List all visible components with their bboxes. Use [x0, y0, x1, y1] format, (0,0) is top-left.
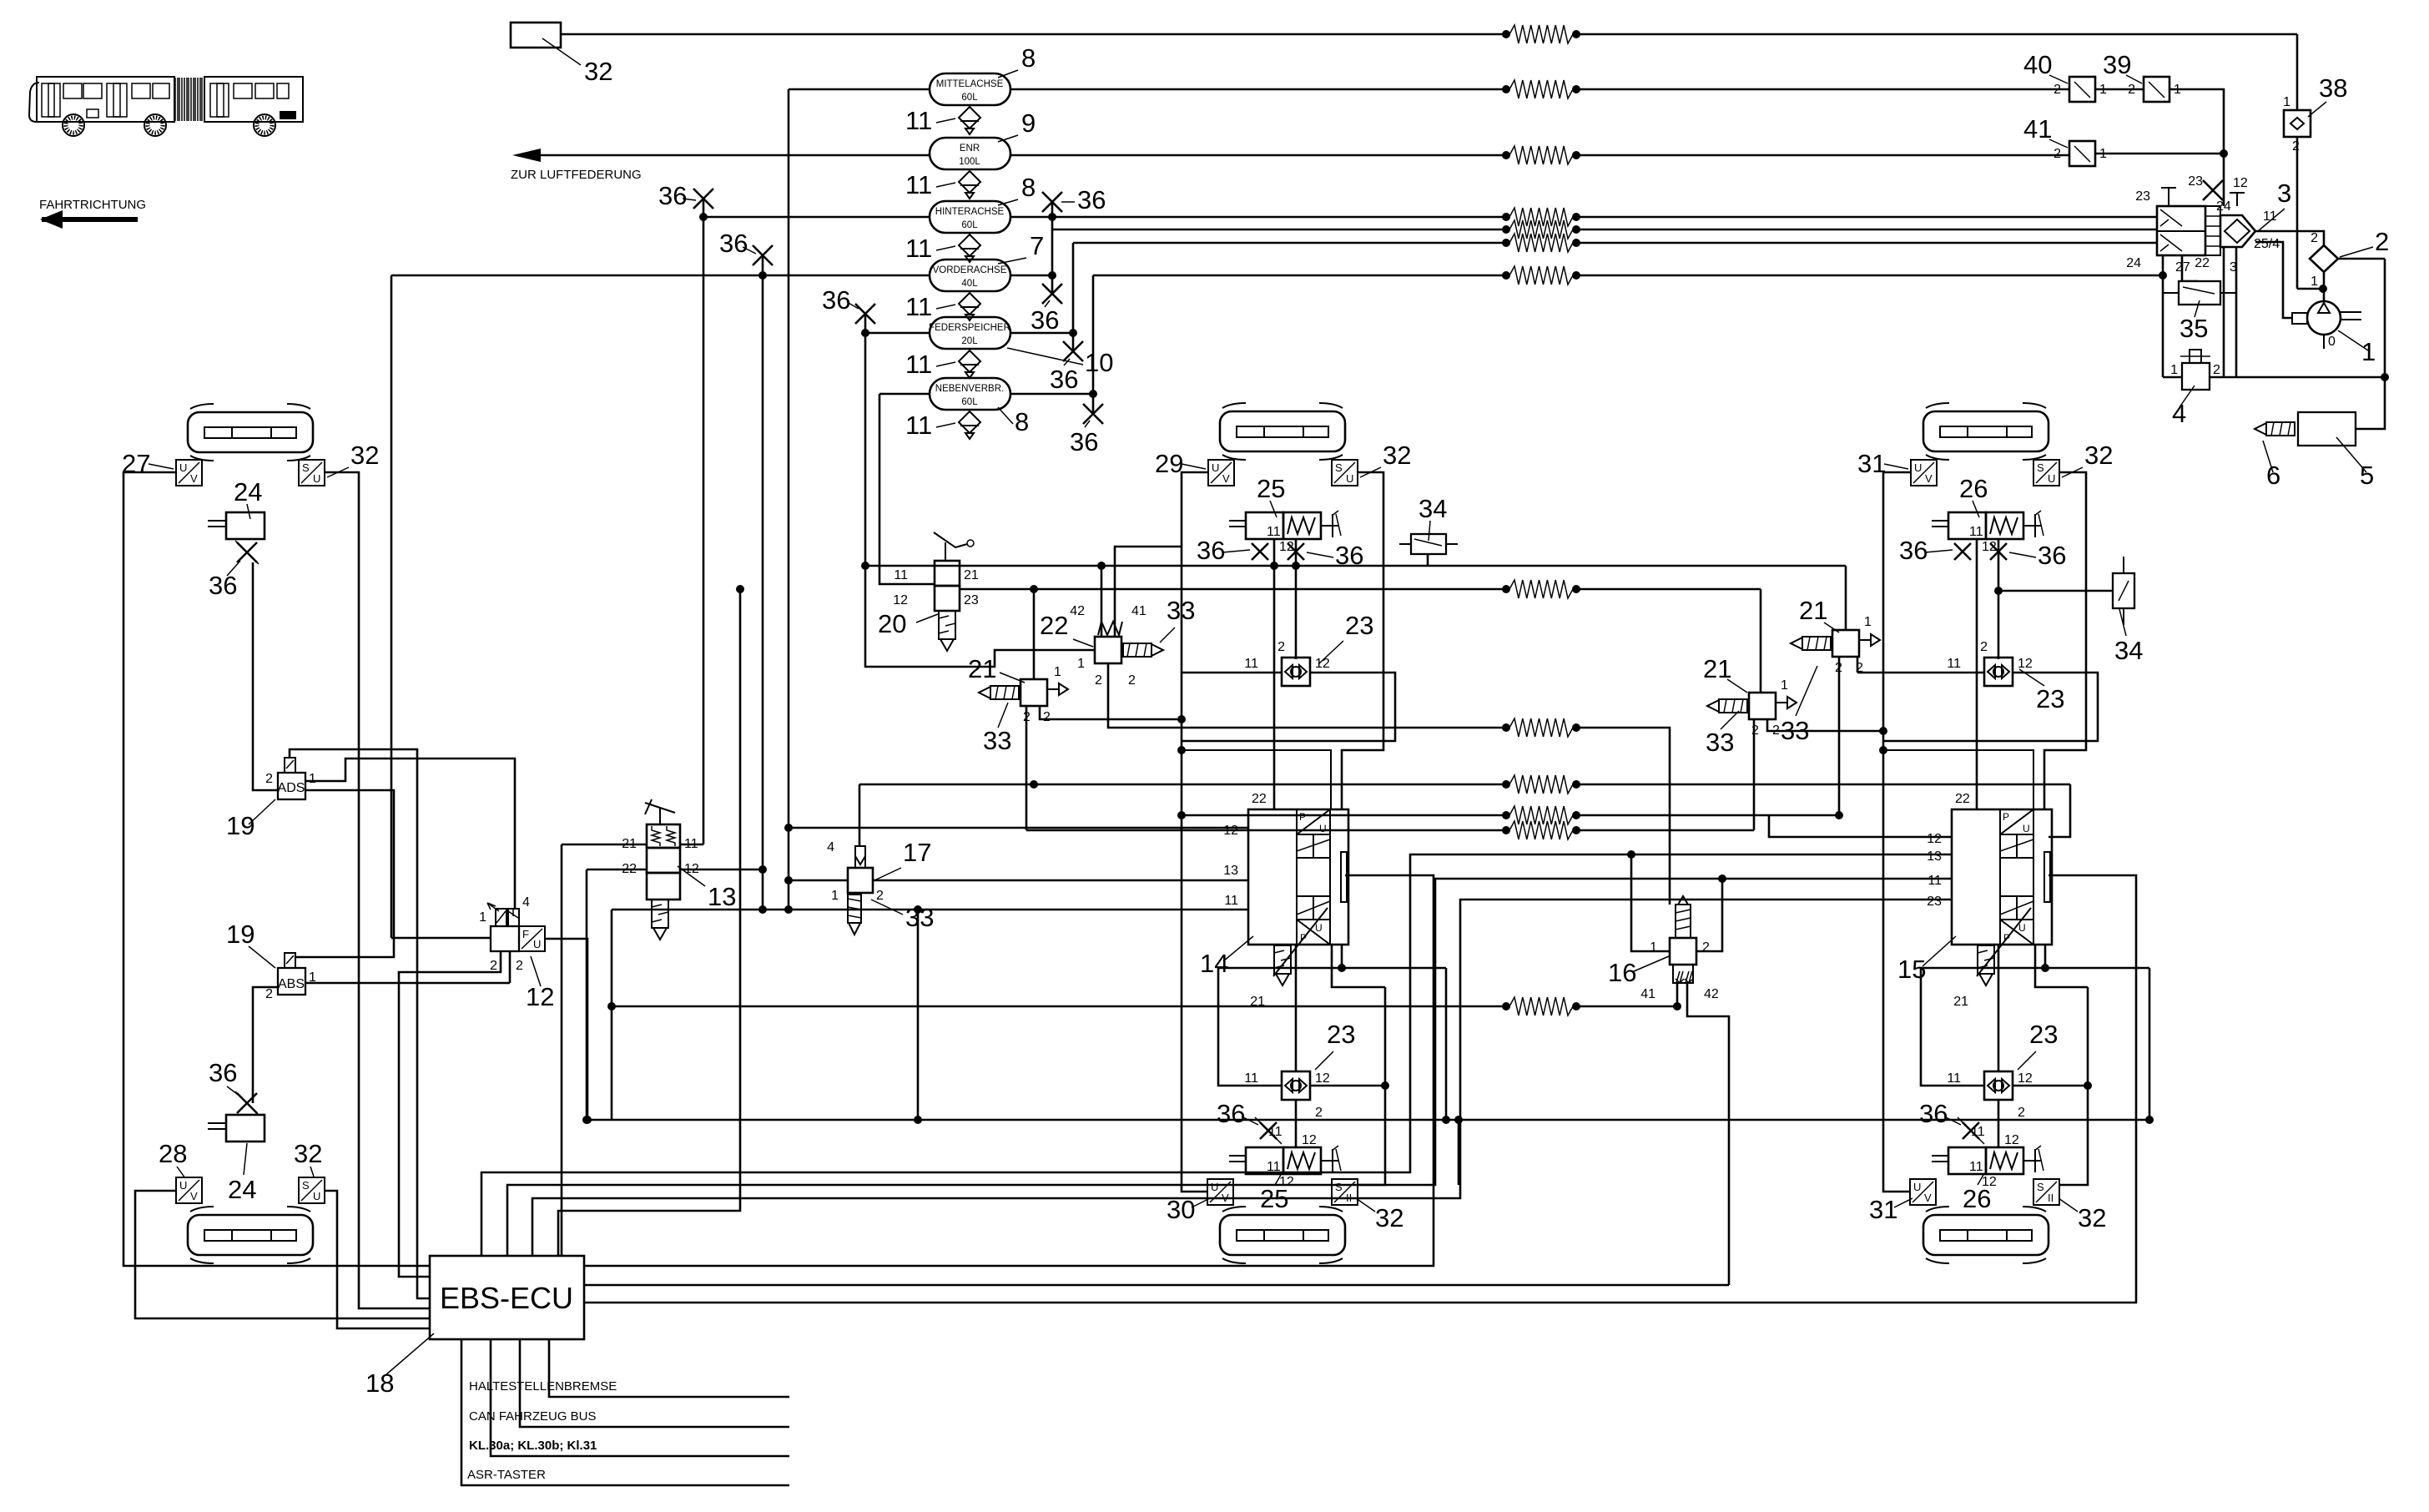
svg-text:42: 42: [1070, 604, 1085, 618]
X slash: [1958, 1117, 1984, 1144]
svg-text:26: 26: [1963, 1184, 1991, 1213]
wire down to trunk 1342: [2149, 968, 2151, 1120]
wire compressor inlet from valve 3 port 25/4: [2255, 242, 2292, 318]
svg-text:14: 14: [1200, 949, 1228, 978]
svg-text:41: 41: [1131, 604, 1146, 618]
svg-text:36: 36: [1217, 1099, 1245, 1128]
svg-text:20: 20: [878, 609, 906, 638]
sensor 32 S/U rear: [2033, 460, 2059, 486]
wire 41 to riser x2665: [2095, 153, 2224, 155]
svg-text:32: 32: [584, 57, 612, 86]
trunk y995 between valve 21s: [1026, 829, 1503, 832]
hose coupling trunk y940: [1509, 775, 1573, 794]
brake pressure solenoid 25 lower middle: [1229, 1146, 1341, 1189]
svg-text:11: 11: [1947, 657, 1961, 671]
svg-text:27: 27: [122, 449, 150, 478]
wire down to trunk 1342: [1445, 968, 1448, 1120]
svg-text:23: 23: [2029, 1020, 2058, 1049]
svg-text:9: 9: [1021, 108, 1036, 138]
frame left vertical rear to sensor 31 lower: [1883, 750, 1910, 1192]
svg-text:ZUR LUFTFEDERUNG: ZUR LUFTFEDERUNG: [511, 168, 642, 182]
wire valve12 port2b down: [509, 951, 512, 983]
CAN line: [520, 1339, 789, 1427]
wire dryer port2 to valve 3 port 11: [2255, 231, 2324, 245]
svg-text:1: 1: [2311, 275, 2318, 289]
svg-text:36: 36: [1197, 536, 1225, 565]
ZUR LUFTFEDERUNG arrow: [522, 154, 930, 157]
svg-text:19: 19: [226, 811, 254, 840]
svg-text:11: 11: [1224, 894, 1238, 908]
hose coupling trunk y995: [1509, 821, 1573, 839]
wire dryer to right riser: [2338, 258, 2385, 260]
hose coupling pilot line y872: [1509, 718, 1573, 737]
wire line B down into rear valve21 lower port 1: [1760, 589, 1762, 693]
svg-text:12: 12: [526, 982, 554, 1011]
svg-text:U: U: [1212, 461, 1219, 474]
spring brake cylinder 24 front lower: [208, 1115, 265, 1142]
svg-text:2: 2: [876, 889, 884, 903]
wire y1160 middle: [1218, 967, 1446, 970]
sensor 32 lower rear: [2033, 1179, 2059, 1205]
test stub above x1037: [864, 314, 867, 333]
svg-text:1: 1: [1077, 657, 1085, 671]
svg-text:41: 41: [1640, 987, 1655, 1001]
svg-text:36: 36: [1031, 305, 1059, 335]
svg-text:MITTELACHSE: MITTELACHSE: [936, 79, 1004, 89]
trunk y940 right part: [1580, 784, 2070, 786]
wire NEBENVERBR line to riser: [879, 393, 930, 396]
drain valve 11 under HINTERACHSE: [959, 234, 980, 256]
air reservoir HINTERACHSE 60L: [930, 201, 1010, 233]
wire sensor 28 to ECU: [135, 1191, 430, 1318]
test point 36 below VORDERACHSE line: [1042, 284, 1062, 304]
svg-text:1: 1: [1781, 678, 1788, 693]
wire L7 VORDERACHSE line: [391, 275, 930, 277]
HALTESTELLENBREMSE line: [549, 1339, 789, 1397]
wire QRV rear lower port 2 down: [1998, 1100, 2000, 1147]
harness to modulator 15 port 23: [532, 900, 1952, 1256]
wire to unloader port 1: [2163, 376, 2182, 379]
wire valve16 port1 up to harness: [1631, 854, 1670, 951]
riser x843 down to foot valve 13 port 11: [703, 217, 705, 844]
svg-text:12: 12: [1315, 1071, 1330, 1086]
wire modulator port 21 down to QRV lower: [1295, 945, 1298, 1071]
svg-text:23: 23: [2135, 189, 2150, 204]
trunk y977 right part: [1580, 814, 1769, 817]
wire valve17 port4 riser: [859, 784, 861, 846]
wire modulator 15 port21 down to QRV lower rear: [1998, 945, 2000, 1071]
ATC solenoid valve 25 middle: [1229, 511, 1341, 554]
wire ABS port 1 to valve 12 port 2b: [305, 982, 510, 985]
air dryer 2: [2310, 245, 2338, 272]
harness to modulator 15 port 13: [481, 854, 1952, 1256]
wire rear valve21 upper port2b down to QRV line: [1857, 657, 1859, 673]
svg-text:25: 25: [1257, 474, 1285, 503]
hose coupling on L1: [1509, 25, 1573, 43]
ABS valve 19: [278, 968, 305, 995]
svg-text:KL.30a; KL.30b; Kl.31: KL.30a; KL.30b; Kl.31: [469, 1439, 597, 1453]
junction x843 on HINTERACHSE line: [699, 213, 708, 221]
wire cylinder24 to ADS port 2: [253, 562, 278, 790]
svg-text:1: 1: [479, 910, 486, 925]
svg-text:7: 7: [1030, 231, 1044, 260]
svg-text:13: 13: [1927, 849, 1942, 864]
svg-text:4: 4: [522, 895, 530, 910]
front axle brake actuator upper: [188, 404, 313, 461]
rear axle brake actuator upper: [1923, 403, 2049, 460]
svg-text:60L: 60L: [961, 220, 978, 230]
test point 36 right under valve 25: [1288, 543, 1304, 560]
svg-text:V: V: [1924, 1192, 1932, 1204]
wire valve22 port42 up to line A: [1101, 566, 1103, 637]
wire sensor 29 down frame left: [1182, 472, 1208, 750]
svg-text:S: S: [302, 461, 310, 474]
air reservoir FEDERSPEICHER 20L: [930, 317, 1010, 349]
wire line B right part: [1580, 588, 1761, 591]
svg-text:2: 2: [2213, 363, 2220, 377]
svg-text:11: 11: [894, 568, 908, 582]
svg-text:8: 8: [1015, 407, 1029, 436]
wire NEBENVERBR right stub: [1010, 393, 1093, 396]
foot brake valve 13: [645, 799, 680, 940]
svg-text:U: U: [1346, 472, 1353, 485]
wire ADS port1 to valve12 port 4: [305, 759, 515, 909]
svg-text:32: 32: [2084, 441, 2113, 470]
wire line B from valve20 port 23: [960, 588, 1503, 591]
graduated release valve 16: [1670, 896, 1696, 983]
wire valve21 port1 up to line B: [1033, 589, 1036, 679]
trunk y940 into modulator 15 supply: [2049, 784, 2070, 837]
wire frame right to sensor 32 lower: [1358, 987, 1385, 1185]
hose coupling on L8: [1509, 266, 1573, 285]
wire L8 NEBENVERBR supply line: [1093, 275, 1503, 277]
wire QRV lower port 2 down to valve 25 lower: [1295, 1100, 1298, 1147]
trunk y1206 to valve 16: [1580, 1005, 1674, 1008]
wire QRV rear lower port 12 to frame: [2013, 1085, 2088, 1087]
wire valve12 port1 left to riser: [391, 937, 491, 940]
svg-text:42: 42: [1704, 987, 1719, 1001]
wire frame right to sensor 32 lower rear: [2059, 987, 2088, 1185]
axle modulator 14 (middle axle): [1248, 809, 1348, 985]
svg-text:II: II: [2048, 1192, 2054, 1204]
wire valve21 port2b to cluster frame: [1040, 706, 1182, 719]
wire valve16 port2 up to harness: [1696, 879, 1722, 951]
svg-text:8: 8: [1021, 43, 1036, 73]
X slash: [235, 1091, 259, 1115]
rear axle brake actuator lower: [1923, 1207, 2049, 1263]
svg-text:11: 11: [1971, 1125, 1985, 1139]
wire valve25 port12 down to line A: [1295, 539, 1298, 566]
riser x914 lower part: [762, 869, 764, 910]
silencer 33 at valve 22: [1123, 643, 1163, 657]
silencer 33 left of rear valve 21 lower: [1707, 699, 1747, 713]
svg-text:29: 29: [1155, 449, 1183, 478]
svg-text:34: 34: [2114, 636, 2143, 665]
svg-text:24: 24: [228, 1175, 256, 1204]
svg-text:26: 26: [1959, 474, 1988, 503]
test point 36 left under valve 26: [1954, 543, 1971, 560]
pressure switch 40: [2069, 77, 2095, 102]
ATC solenoid valve 26 rear: [1932, 511, 2043, 554]
wire between 40 and 39: [2095, 88, 2144, 91]
svg-text:22: 22: [1252, 792, 1267, 806]
svg-text:ABS: ABS: [278, 977, 305, 991]
svg-text:2: 2: [1277, 640, 1285, 654]
wire rear valve21 upper port1 up to line A: [1845, 566, 1847, 630]
svg-text:1: 1: [2170, 363, 2178, 377]
ASR control trunk y940: [859, 784, 1503, 786]
front axle brake actuator lower: [188, 1207, 313, 1263]
svg-text:2: 2: [1702, 940, 1710, 955]
svg-text:2: 2: [2018, 1106, 2025, 1120]
sensor 31 U/V rear: [1911, 460, 1937, 486]
trunk y1206 left part: [611, 1005, 1503, 1008]
pressure limiting valve 12: [491, 926, 519, 951]
wire L2 left of tank1: [789, 88, 930, 91]
wire rear valve21 lower port2a to trunk y995: [1753, 719, 1756, 830]
svg-text:U: U: [179, 1179, 187, 1192]
svg-text:HINTERACHSE: HINTERACHSE: [935, 207, 1005, 217]
engine intake stub: [2292, 313, 2307, 324]
air reservoir MITTELACHSE 60L: [930, 73, 1010, 105]
svg-text:2: 2: [265, 772, 273, 786]
wire to restrictor 34 rear: [1998, 590, 2113, 592]
svg-text:11: 11: [1969, 1160, 1983, 1174]
svg-text:10: 10: [1085, 348, 1113, 377]
svg-text:12: 12: [1927, 832, 1942, 846]
wire sensor 32 rear down to modulator: [2044, 472, 2086, 809]
svg-text:S: S: [1335, 461, 1343, 474]
svg-text:11: 11: [1947, 1071, 1961, 1086]
compressor 1: [2307, 301, 2341, 335]
svg-text:21: 21: [1953, 995, 1968, 1009]
svg-text:36: 36: [2038, 541, 2066, 570]
wire QRV23 rear port12 loop: [1883, 673, 2098, 741]
svg-text:24: 24: [2126, 256, 2141, 270]
svg-text:17: 17: [903, 838, 931, 867]
wire tee to dryer-compressor link: [2297, 288, 2324, 290]
harness to modulator 15 port 11: [507, 879, 1952, 1256]
test stub below x1261: [1051, 275, 1054, 294]
riser x1286 FEDERSPEICHER to L6: [1072, 243, 1075, 333]
wire L3 tank2 to articulation: [1010, 154, 1503, 157]
ASR solenoid valve 17: [848, 846, 873, 893]
trunk y977 extension to rear valve21: [1769, 814, 1839, 817]
hose coupling on L6: [1509, 234, 1573, 252]
svg-text:23: 23: [2036, 684, 2064, 713]
wire rear valve21 upper port2a down to trunk y977: [1838, 657, 1841, 815]
FAHRTRICHTUNG arrow: [42, 217, 138, 222]
silencer 33 left of rear valve 21 upper: [1791, 637, 1831, 650]
svg-text:2: 2: [1315, 1106, 1323, 1120]
riser x914 down to foot valve port 12 junction: [762, 275, 764, 869]
svg-text:11: 11: [905, 292, 932, 321]
wire valve3 port24 down to unloader 4: [2162, 255, 2164, 377]
wire unloader port 2 to port 3 riser: [2210, 376, 2236, 379]
wire valve22 port2 to articulation pilot line: [1108, 663, 1503, 728]
wire trunk y1055 into valve 17 port 1: [789, 879, 848, 882]
air reservoir VORDERACHSE 40L: [930, 260, 1010, 291]
wire valve16 port42 down to ECU line: [1687, 983, 1729, 1285]
svg-text:32: 32: [294, 1139, 322, 1168]
hand brake valve 20: [934, 532, 974, 651]
svg-text:34: 34: [1419, 494, 1447, 523]
wire QRV23 rear port11 from rear valve 21: [1857, 672, 1984, 674]
svg-text:ENR: ENR: [960, 144, 980, 154]
wire sensor 31 down frame left: [1883, 472, 1911, 750]
svg-text:19: 19: [226, 920, 254, 949]
test point 36 right under valve 26: [1990, 543, 2007, 560]
wire line A left stub: [865, 565, 935, 567]
wire FEDERSPEICHER to riser: [1010, 332, 1073, 335]
hose coupling trunk y977: [1509, 806, 1573, 824]
wire sensor 31 into modulator 15: [1883, 750, 2033, 809]
svg-text:21: 21: [1799, 596, 1827, 625]
riser x673 down to ECU top: [561, 844, 563, 1256]
valve 21 rear upper: [1832, 630, 1859, 657]
sensor 28 U/V front lower: [176, 1177, 202, 1203]
svg-text:40L: 40L: [961, 279, 978, 289]
wire valve25 port11 down to modulator port 22: [1273, 539, 1276, 809]
svg-text:U: U: [2023, 823, 2030, 834]
wire L8 right part to protection valve port 24: [1580, 275, 2163, 277]
wire rear valve21 lower port2b to frame: [1767, 719, 1883, 731]
wire L1 right part: [1580, 33, 2297, 36]
trunk y995 right part: [1580, 829, 1754, 832]
test stub below FEDERSPEICHER line: [1072, 333, 1075, 351]
svg-text:21: 21: [1250, 995, 1265, 1009]
valve 21 middle: [1020, 679, 1047, 706]
test point 36 above valve 26 lower: [1963, 1122, 1979, 1139]
svg-text:P: P: [2003, 811, 2009, 823]
svg-text:2: 2: [2054, 83, 2061, 97]
svg-text:2: 2: [1128, 673, 1136, 688]
svg-text:12: 12: [893, 593, 908, 607]
svg-text:F: F: [522, 928, 529, 940]
silencer 6: [2255, 422, 2295, 436]
test point 36 above FEDERSPEICHER line x1037: [855, 304, 875, 324]
svg-text:HALTESTELLENBREMSE: HALTESTELLENBREMSE: [469, 1379, 617, 1394]
junction x1037 on FEDERSPEICHER line: [861, 329, 869, 337]
wire valve13 port22 left: [587, 869, 647, 871]
riser x469 from VORDERACHSE line down to valve 12 port 1: [391, 275, 393, 938]
wire F/U sensor to trunk 1342: [545, 939, 587, 1120]
wire L4 tank3 to articulation: [1010, 216, 1503, 219]
svg-text:21: 21: [964, 568, 979, 582]
svg-text:ASR-TASTER: ASR-TASTER: [467, 1468, 546, 1482]
svg-text:60L: 60L: [961, 397, 978, 407]
svg-text:36: 36: [1899, 536, 1928, 565]
trunk y977 left part: [1182, 814, 1503, 817]
wire NEBENVERBR down to hand valve 20 port 12: [879, 394, 935, 584]
wire L1 down to check valve 38: [2296, 34, 2299, 110]
svg-text:28: 28: [159, 1139, 187, 1168]
quick release valve 23 middle lower: [1282, 1071, 1310, 1100]
right riser down to regeneration tank 5: [2356, 259, 2385, 429]
svg-text:2: 2: [1751, 723, 1759, 738]
wire L5 to protection valve port 22: [1052, 229, 1503, 231]
svg-text:2: 2: [2292, 139, 2300, 154]
svg-text:1: 1: [309, 772, 316, 786]
svg-text:1: 1: [831, 889, 839, 903]
svg-text:36: 36: [209, 1058, 237, 1087]
regeneration reservoir 5: [2298, 412, 2356, 446]
EBS-ECU box 18: [430, 1256, 584, 1339]
brake pressure solenoid 26 lower rear: [1932, 1146, 2043, 1189]
svg-text:36: 36: [1050, 365, 1078, 394]
air reservoir NEBENVERBR. 60L: [930, 378, 1010, 410]
sensor 30 V/U middle: [1207, 1179, 1233, 1205]
svg-text:U: U: [313, 472, 320, 485]
frame left vertical to sensor 30: [1182, 750, 1207, 1192]
X slash: [235, 541, 259, 564]
svg-text:12: 12: [2018, 657, 2033, 671]
axle modulator 15 (rear axle): [1952, 809, 2052, 985]
svg-text:4: 4: [2172, 399, 2186, 428]
wire valve26 port11 down to modulator 15 port 22: [1976, 539, 1978, 809]
sensor 27 U/V front: [176, 460, 202, 486]
wire valve3 port27 to governor 35: [2182, 255, 2198, 281]
svg-text:U: U: [313, 1190, 320, 1202]
riser x945 from L2 down to front modulator feed: [788, 89, 790, 910]
svg-text:6: 6: [2266, 461, 2280, 490]
svg-text:U: U: [1319, 823, 1327, 834]
svg-text:23: 23: [1345, 611, 1373, 640]
wire L5 right part: [1580, 229, 2157, 231]
test point 36 under cylinder 24: [237, 542, 257, 562]
svg-text:U: U: [1315, 922, 1323, 934]
wire valve26 port12 down: [1998, 539, 2000, 591]
trunk y1342: [587, 1119, 2149, 1121]
svg-text:11: 11: [1244, 657, 1258, 671]
svg-text:FAHRTRICHTUNG: FAHRTRICHTUNG: [39, 198, 146, 212]
silencer 33 left of valve 21: [979, 686, 1019, 699]
svg-text:S: S: [2037, 1181, 2044, 1193]
quick release valve 23 rear upper: [1984, 658, 2013, 686]
svg-text:12: 12: [1302, 1133, 1317, 1147]
svg-text:U: U: [1913, 1181, 1921, 1193]
svg-text:36: 36: [1070, 427, 1098, 456]
wire 39 down to protection valve port 24: [2169, 89, 2224, 206]
wire L4 to protection valve port 21: [1580, 216, 2157, 219]
svg-text:S: S: [302, 1179, 310, 1192]
quick release valve 23 rear lower: [1984, 1071, 2013, 1100]
svg-text:U: U: [179, 461, 187, 474]
svg-text:12: 12: [2004, 1133, 2019, 1147]
KL.30 line: [491, 1339, 789, 1456]
unloader valve 4: [2182, 363, 2210, 390]
wire modulator 15 right side down: [2035, 945, 2088, 987]
svg-text:1: 1: [2283, 95, 2290, 109]
restrictor 34 rear: [2113, 573, 2134, 608]
test stub x843: [703, 199, 705, 217]
wire QRV lower port 12 to frame: [1310, 1085, 1385, 1087]
wire valve13 port21 left: [562, 844, 647, 846]
svg-text:12: 12: [1315, 657, 1330, 671]
sensor 29 U/V middle axle: [1208, 460, 1234, 486]
svg-text:11: 11: [1244, 1071, 1258, 1086]
wire valve13 port11 to riser x843: [680, 844, 703, 846]
svg-text:20L: 20L: [961, 336, 978, 346]
hose coupling on line B: [1509, 580, 1573, 598]
test stub below NEBENVERBR line: [1092, 394, 1095, 414]
svg-text:2: 2: [1980, 640, 1988, 654]
svg-text:39: 39: [2103, 50, 2131, 79]
svg-text:11: 11: [905, 170, 932, 199]
sensor 32 lower middle: [1332, 1179, 1358, 1205]
wire line A from valve20 port11/21 across to rear valve 21: [935, 565, 1846, 567]
wire L2 right part: [1580, 88, 2069, 91]
